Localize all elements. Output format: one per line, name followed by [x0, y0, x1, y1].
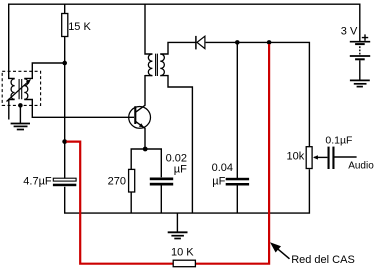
- wire audio output lead: [335, 156, 357, 158]
- wire emitter node to R2 270: [131, 149, 145, 169]
- wire 15K bottom lead to node A: [64, 37, 66, 64]
- transformer T1 right winding: [24, 79, 28, 99]
- transistor Q1 base bar: [134, 106, 136, 124]
- capacitor C1 4.7uF positive plate (hollow): [53, 178, 76, 181]
- node D emitter junction dot: [143, 147, 148, 152]
- wire 4.7uF branch from node A down: [64, 63, 66, 179]
- node E junction dot (red start): [62, 139, 67, 144]
- wire battery to ground: [359, 60, 361, 80]
- svg-text:10 K: 10 K: [171, 247, 194, 259]
- node T1 center-tap dot: [18, 103, 23, 108]
- transformer T2 secondary winding: [160, 54, 164, 76]
- transformer T1 left winding: [11, 79, 15, 99]
- battery BT1 cell1 negative plate: [355, 43, 365, 45]
- wire 15K top lead: [64, 4, 66, 13]
- svg-text:Red del CAS: Red del CAS: [291, 254, 355, 266]
- wire T2 secondary top to diode: [160, 42, 195, 54]
- resistor R2 270: [129, 169, 135, 192]
- ground T1: [11, 123, 30, 125]
- wire C1 bottom, ground rail, pot bottom lead: [65, 169, 310, 213]
- svg-text:15 K: 15 K: [68, 21, 91, 33]
- wire T1 left winding bottom stub: [9, 100, 15, 120]
- battery BT1 dashed link: [359, 46, 361, 54]
- potentiometer R3 10k body: [306, 147, 312, 169]
- potentiometer R3 wiper arrow: [314, 156, 327, 158]
- transformer T1 dashed enclosure: [2, 71, 40, 105]
- svg-text:270: 270: [108, 175, 126, 187]
- transistor Q1 collector lead: [135, 75, 145, 112]
- transformer T2 primary winding: [148, 54, 152, 76]
- wire C2 bottom to rail: [160, 185, 162, 213]
- wire R2 bottom to rail: [130, 192, 132, 213]
- svg-text:3 V: 3 V: [341, 25, 358, 37]
- battery BT1 plus sign: [362, 34, 368, 40]
- transistor Q1 circle: [129, 107, 151, 129]
- wire emitter node to C2: [145, 149, 161, 177]
- wire T2 primary top lead: [145, 4, 152, 54]
- resistor R1 15K: [62, 14, 68, 37]
- wire T1 center-tap to ground: [19, 105, 21, 123]
- wire node A to T1 right winding top: [24, 63, 64, 78]
- wire top rail B+ and left drop: [9, 4, 360, 78]
- svg-text:µF: µF: [212, 175, 225, 187]
- wire T1 right winding to Q1 base: [24, 100, 134, 118]
- svg-text:4.7µF: 4.7µF: [23, 176, 52, 188]
- transformer T1 core: [19, 79, 22, 99]
- capacitor C4 0.1uF plates: [328, 147, 330, 169]
- callout arrow Red del CAS: [277, 248, 290, 258]
- transformer T1 variable arrow: [7, 81, 29, 101]
- capacitor C2 0.02uF plates: [150, 178, 173, 181]
- wire T2 primary bottom to Q1 collector: [145, 75, 152, 77]
- diode D1 triangle: [197, 36, 205, 48]
- node A junction dot: [62, 61, 67, 66]
- svg-text:0.1µF: 0.1µF: [325, 135, 352, 147]
- ground main: [168, 231, 188, 233]
- capacitor C3 0.04uF plates: [226, 178, 249, 181]
- transformer T2 core: [156, 54, 158, 76]
- battery BT1 cell1 positive plate: [350, 41, 370, 43]
- battery BT1 cell2 negative plate: [355, 58, 365, 60]
- wire C3 bottom to rail: [236, 186, 238, 214]
- wire T2 secondary bottom to ground rail: [160, 76, 192, 214]
- svg-text:Audio: Audio: [348, 161, 374, 172]
- node C junction dot (red CAS): [267, 40, 272, 45]
- transistor Q1 emitter arrow: [139, 123, 144, 127]
- ground battery: [350, 79, 370, 81]
- svg-text:0.04: 0.04: [212, 162, 233, 174]
- node B junction dot (0.04 branch): [235, 40, 240, 45]
- battery BT1 cell2 positive plate: [350, 55, 370, 57]
- capacitor C1 4.7uF negative plate: [53, 184, 76, 187]
- svg-text:µF: µF: [174, 164, 187, 176]
- wire rail ground stub: [176, 213, 178, 232]
- svg-text:10k: 10k: [287, 151, 305, 163]
- resistor R4 10K (in red path): [173, 260, 195, 267]
- wire diode to pot corner: [206, 42, 310, 147]
- transistor Q1 emitter lead: [135, 121, 145, 149]
- wire node B down to C3: [236, 42, 238, 178]
- diode D1 cathode bar: [195, 36, 197, 50]
- wire red CAS path: [66, 44, 269, 264]
